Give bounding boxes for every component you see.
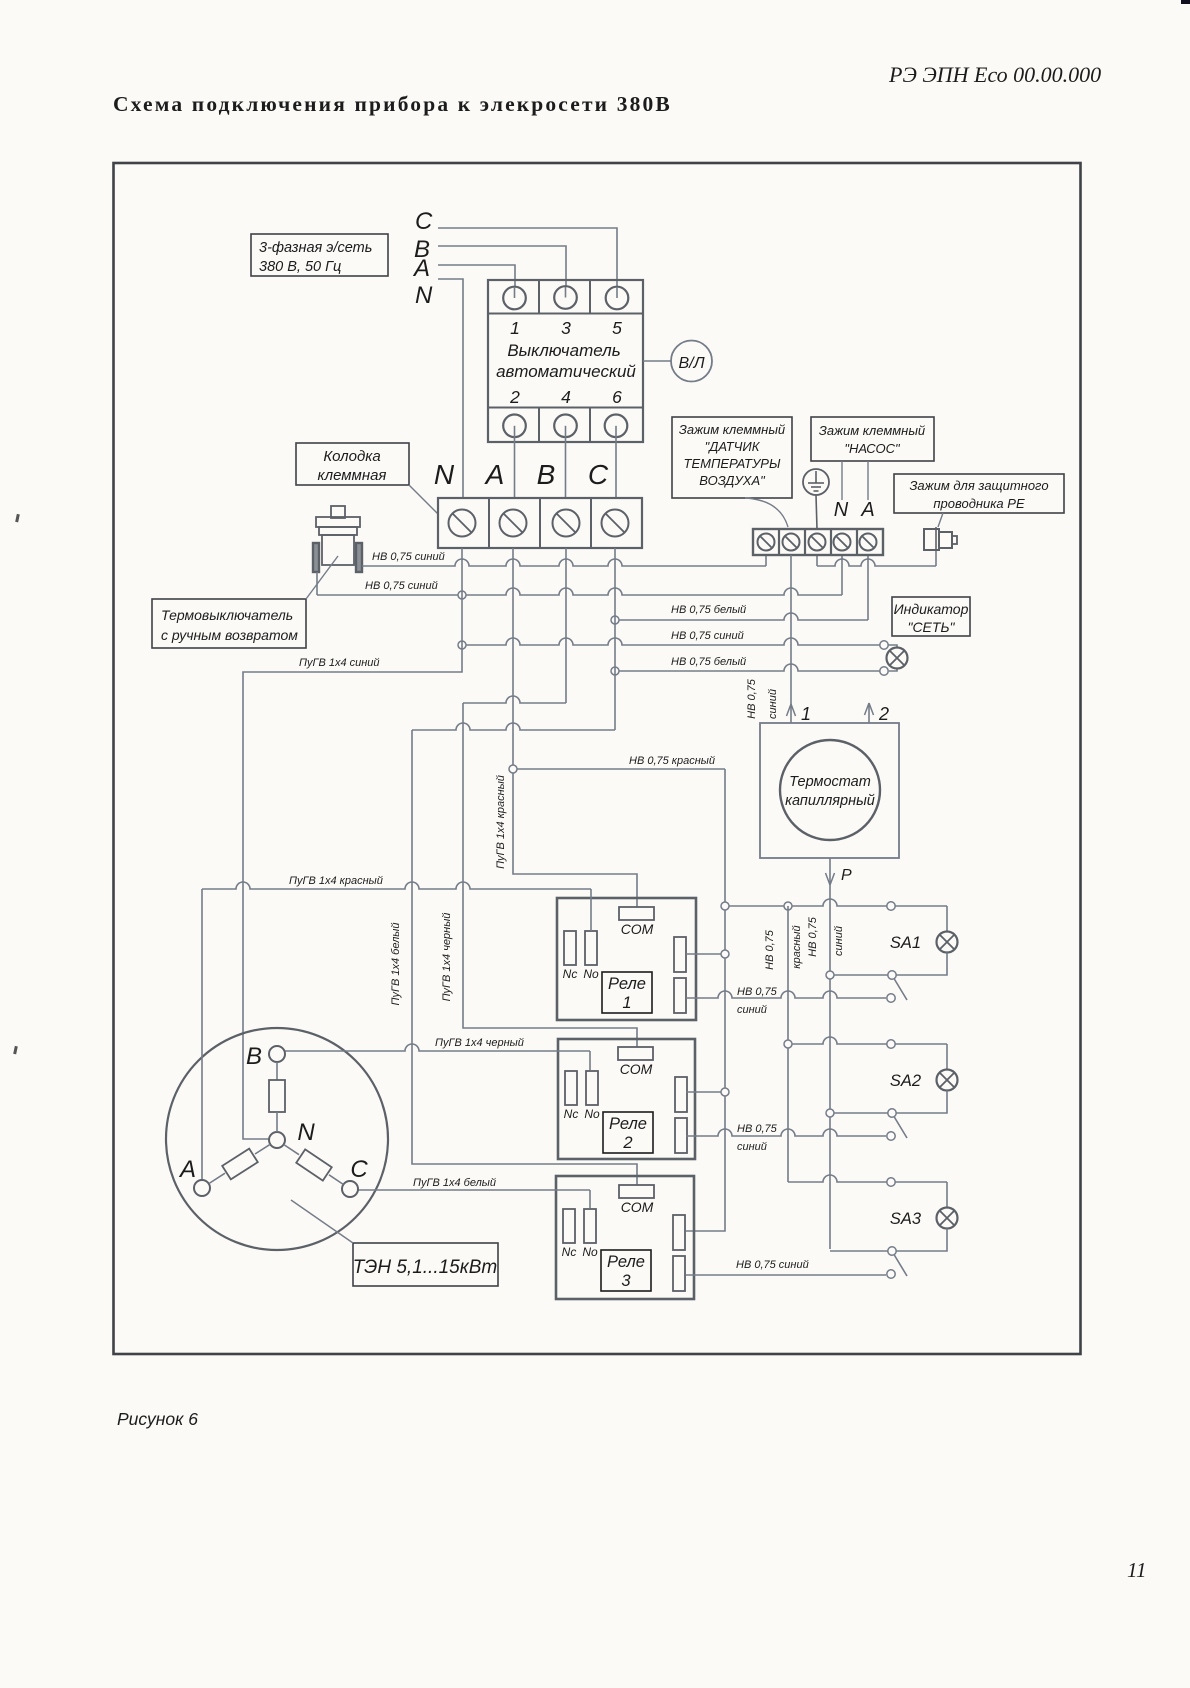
label box: 3-phase supply (251, 234, 388, 276)
svg-text:А: А (860, 499, 874, 521)
svg-text:Nc: Nc (563, 967, 578, 981)
switch SA3 bottom contact (887, 1270, 895, 1278)
switch SA2 blade (894, 1117, 907, 1139)
relay1 No terminal (585, 931, 597, 965)
wire phase B to breaker pin 3 (438, 246, 566, 287)
terminal circle feed SA1 (887, 902, 895, 910)
svg-text:синий: синий (737, 1004, 767, 1016)
switch SA2 bottom contact (887, 1132, 895, 1140)
breaker terminal circle pin3 (554, 286, 577, 309)
sensor/pump clamp terminal strip XT2 (753, 529, 883, 555)
svg-text:НВ 0,75: НВ 0,75 (764, 929, 776, 970)
relay3 No terminal (584, 1209, 596, 1243)
wire НВ 0,75 синий: thermal cutout left to N junction to НАСОС N clamp (316, 572, 318, 595)
breaker terminal circle pin6 (605, 415, 628, 438)
svg-text:Колодка: Колодка (323, 448, 380, 465)
scan speck left margin 1 (15, 514, 20, 522)
wire НВ 0,75 белый: C junction to indicator lamp (615, 664, 880, 671)
svg-text:N: N (415, 282, 433, 309)
wire breaker pin2 to terminal block A (514, 426, 516, 498)
heater element B-N (276, 1062, 278, 1080)
svg-text:380 В, 50 Гц: 380 В, 50 Гц (259, 259, 341, 275)
svg-text:5: 5 (612, 318, 622, 338)
svg-text:НВ 0,75: НВ 0,75 (737, 986, 778, 998)
svg-text:НВ 0,75: НВ 0,75 (737, 1123, 778, 1135)
svg-text:НВ 0,75 белый: НВ 0,75 белый (671, 604, 746, 616)
svg-text:N: N (434, 459, 455, 490)
wire ПуГВ 1х4 красный: heater A up to relay1 No (201, 889, 203, 1180)
leader arc to sensor clamp (745, 498, 788, 527)
svg-text:ПуГВ 1х4 черный: ПуГВ 1х4 черный (435, 1037, 524, 1049)
wire relay1 coil lower НВ 0,75 синий to SA1 switch (686, 991, 886, 998)
wire НВ 0,75 синий: N junction to indicator lamp (462, 638, 880, 645)
svg-text:"НАСОС": "НАСОС" (844, 441, 901, 456)
svg-text:НВ 0,75: НВ 0,75 (746, 678, 758, 719)
svg-text:ПуГВ 1х4 синий: ПуГВ 1х4 синий (299, 657, 380, 669)
heater star point N terminal (269, 1132, 285, 1148)
svg-text:11: 11 (1127, 1558, 1146, 1582)
svg-text:SA1: SA1 (890, 934, 921, 952)
svg-text:В/Л: В/Л (678, 355, 704, 372)
terminal screw A (500, 510, 527, 537)
svg-text:синий: синий (737, 1141, 767, 1153)
svg-text:No: No (584, 1107, 600, 1121)
breaker terminal circle pin2 (503, 415, 526, 438)
svg-text:НВ 0,75 синий: НВ 0,75 синий (671, 630, 744, 642)
svg-text:No: No (582, 1245, 598, 1259)
svg-text:СОМ: СОМ (620, 1061, 653, 1077)
wire breaker pin4 to terminal block B (565, 426, 567, 498)
wire feed to SA3 lamp (788, 1175, 947, 1182)
svg-text:Выключатель: Выключатель (507, 341, 620, 360)
wire control bus horizontal to SA1 (725, 899, 947, 906)
relay K3 (Реле 3) (556, 1176, 694, 1299)
svg-text:С: С (350, 1156, 368, 1183)
terminal circle feed SA3 (887, 1178, 895, 1186)
switch SA1 blade (894, 979, 907, 1001)
svg-text:"СЕТЬ": "СЕТЬ" (907, 619, 955, 635)
heater phase A terminal (194, 1180, 210, 1196)
svg-text:Реле: Реле (609, 1115, 647, 1133)
svg-text:3: 3 (621, 1272, 631, 1290)
switch SA3 blade (894, 1255, 907, 1277)
relay2 coil terminal upper (675, 1077, 687, 1112)
lamp terminal bottom (880, 667, 888, 675)
relay K2 (Реле 2) (558, 1039, 695, 1159)
clamp screw 5 (A) (860, 534, 877, 551)
svg-text:капиллярный: капиллярный (785, 793, 875, 809)
wire feed to SA2 lamp (788, 1037, 947, 1044)
terminal screw C (602, 510, 629, 537)
heater phase C terminal (342, 1181, 358, 1197)
svg-text:Термовыключатель: Термовыключатель (161, 607, 293, 623)
svg-text:проводника РЕ: проводника РЕ (933, 496, 1025, 511)
label box: Колодка клеммная (296, 443, 409, 485)
relay3 Nc terminal (563, 1209, 575, 1243)
clamp screw 2 (783, 534, 800, 551)
relay2 COM terminal (618, 1047, 653, 1060)
svg-text:красный: красный (791, 925, 803, 968)
wire ПуГВ 1х4 белый: heater C to relay3 No (358, 1189, 590, 1191)
svg-text:"ДАТЧИК: "ДАТЧИК (705, 439, 761, 454)
svg-text:РЭ ЭПН Есо 00.00.000: РЭ ЭПН Есо 00.00.000 (888, 62, 1101, 87)
svg-text:Nc: Nc (564, 1107, 579, 1121)
svg-text:СОМ: СОМ (621, 921, 654, 937)
svg-text:НВ 0,75: НВ 0,75 (807, 916, 819, 957)
leader line to terminal block (409, 485, 438, 514)
wire НВ 0,75 синий from clamp cell2 to thermostat pin 1 (790, 555, 792, 723)
scan corner mark (1181, 0, 1190, 4)
switch SA1 top contact (888, 971, 896, 979)
svg-text:1: 1 (801, 704, 811, 724)
svg-text:С: С (415, 208, 433, 235)
terminal screw N (449, 510, 476, 537)
wire НВ 0,75 красный: A junction to control circuit (513, 768, 725, 770)
indicator lamp HL СЕТЬ (880, 641, 908, 675)
relay1 Nc terminal (564, 931, 576, 965)
label box: Зажим клеммный НАСОС (811, 417, 934, 461)
svg-text:ПуГВ 1х4 красный: ПуГВ 1х4 красный (289, 875, 383, 887)
wire НВ 0,75 белый: C junction to НАСОС A clamp (615, 613, 868, 620)
svg-text:4: 4 (561, 387, 571, 407)
leader lines to clamp cells N and A (841, 461, 843, 500)
svg-text:N: N (834, 499, 849, 521)
PE bolt clamp (924, 513, 957, 551)
svg-text:А: А (178, 1156, 196, 1183)
svg-text:Рисунок 6: Рисунок 6 (117, 1409, 198, 1429)
svg-text:с ручным возвратом: с ручным возвратом (161, 627, 298, 643)
signal lamp SA3 (937, 1208, 958, 1229)
breaker terminal circle pin4 (554, 415, 577, 438)
leader line to thermal cutout (306, 556, 338, 599)
clamp screw 1 (758, 534, 775, 551)
label box: Зажим клеммный ДАТЧИК ТЕМПЕРАТУРЫ ВОЗДУХА (672, 417, 792, 498)
svg-text:Реле: Реле (607, 1253, 645, 1271)
relay3 coil terminal upper (673, 1215, 685, 1250)
wire feed to SA1 lamp (946, 906, 948, 932)
svg-text:СОМ: СОМ (621, 1199, 654, 1215)
svg-text:N: N (297, 1119, 315, 1146)
relay3 COM terminal (619, 1185, 654, 1198)
wire ПуГВ 1х4 черный: heater B to relay2 No (285, 1044, 590, 1051)
signal lamp SA1 (937, 932, 958, 953)
breaker designator circle В/Л (643, 360, 672, 362)
clamp screw 4 (N) (834, 534, 851, 551)
terminal block XT1 (колодка клеммная) (438, 498, 642, 548)
wire breaker pin6 to terminal block C (615, 426, 617, 498)
wire cell3 of sensor clamp to PE bolt (816, 555, 818, 566)
heater element N-C (284, 1145, 299, 1155)
thermostat output P down arrow and wire (829, 858, 831, 1249)
svg-text:синий: синий (767, 689, 779, 719)
relay1 name box (602, 972, 652, 1013)
svg-text:НВ 0,75 синий: НВ 0,75 синий (372, 551, 445, 563)
wire relay3 coil lower НВ 0,75 синий to SA3 switch (686, 1274, 886, 1276)
heater phase B terminal (269, 1046, 285, 1062)
svg-text:Схема подключения прибора к: Схема подключения прибора к элекросети 3… (113, 92, 672, 116)
label box: ТЭН 5,1...15кВт (353, 1243, 498, 1286)
wire B phase jog ПуГВ 1х4 черный to relay2 COM (463, 696, 566, 703)
breaker terminal circle pin5 (606, 287, 629, 310)
label box: Индикатор СЕТЬ (892, 597, 970, 636)
wire lamp SA3 to switch top and P line (830, 1229, 947, 1252)
svg-text:2: 2 (622, 1134, 632, 1152)
svg-text:НВ 0,75 белый: НВ 0,75 белый (671, 656, 746, 668)
wire C phase vertical ПуГВ 1х4 белый to relay3 COM (614, 548, 616, 620)
label box: Зажим для защитного проводника PE (894, 474, 1064, 513)
relay3 name box (601, 1250, 651, 1291)
wire N column vertical from terminal block (461, 548, 463, 645)
relay1 coil terminal lower (674, 978, 686, 1013)
wire lamp SA1 to switch top and P line (830, 953, 947, 976)
svg-text:автоматический: автоматический (496, 362, 636, 381)
svg-text:No: No (583, 967, 599, 981)
svg-text:НВ 0,75 синий: НВ 0,75 синий (736, 1259, 809, 1271)
svg-text:А: А (484, 459, 505, 490)
svg-text:1: 1 (622, 994, 631, 1012)
switch SA2 top contact (888, 1109, 896, 1117)
label box: Термовыключатель с ручным возвратом (152, 599, 306, 648)
svg-text:клеммная: клеммная (318, 467, 387, 484)
wire phase N down left side of breaker to terminal block N (438, 279, 463, 498)
wire relay1 coil upper to red bus junction (686, 953, 725, 955)
relay2 coil terminal lower (675, 1118, 687, 1153)
svg-text:НВ 0,75 красный: НВ 0,75 красный (629, 755, 715, 767)
svg-text:ВОЗДУХА": ВОЗДУХА" (699, 473, 766, 488)
wire lamp SA2 to switch top and P line (830, 1091, 947, 1114)
svg-text:1: 1 (510, 318, 520, 338)
wire phase A to breaker pin 1 (438, 265, 515, 287)
breaker terminal circle pin1 (503, 287, 526, 310)
leader line to heater (291, 1200, 353, 1243)
lamp terminal top (880, 641, 888, 649)
svg-text:2: 2 (509, 387, 520, 407)
clamp screw 3 (809, 534, 826, 551)
svg-text:Зажим клеммный: Зажим клеммный (819, 423, 925, 438)
relay K1 (Реле 1) (557, 898, 696, 1020)
svg-text:3: 3 (561, 318, 571, 338)
svg-text:Зажим клеммный: Зажим клеммный (679, 422, 785, 437)
wire relay2 coil lower НВ 0,75 синий to SA2 switch (686, 1129, 886, 1136)
heater TEH outline circle (166, 1028, 388, 1250)
thermal cutout SK (термовыключатель) (313, 506, 362, 572)
terminal screw B (553, 510, 580, 537)
svg-text:Термостат: Термостат (789, 774, 871, 790)
svg-text:SA3: SA3 (890, 1210, 922, 1228)
svg-text:В: В (246, 1043, 262, 1070)
signal lamp SA2 (937, 1070, 958, 1091)
relay2 name box (603, 1112, 653, 1153)
wire phase C to breaker pin 5 (438, 228, 617, 287)
svg-text:ТЭН 5,1...15кВт: ТЭН 5,1...15кВт (353, 1257, 497, 1278)
svg-text:синий: синий (833, 926, 845, 956)
relay1 coil terminal upper (674, 937, 686, 972)
svg-text:SA2: SA2 (890, 1072, 921, 1090)
svg-text:6: 6 (612, 387, 622, 407)
circuit breaker QF (Выключатель автоматический) (488, 280, 643, 442)
relay3 coil terminal lower (673, 1256, 685, 1291)
relay1 COM terminal (619, 907, 654, 920)
switch SA3 top contact (888, 1247, 896, 1255)
thermostat box (Термостат капиллярный) (760, 723, 899, 858)
switch SA1 bottom contact (887, 994, 895, 1002)
svg-text:2: 2 (878, 704, 889, 724)
thermostat pin 1 arrow (787, 704, 796, 716)
svg-text:Nc: Nc (562, 1245, 577, 1259)
svg-text:Зажим для защитного: Зажим для защитного (909, 478, 1048, 493)
svg-text:В: В (537, 459, 556, 490)
thermostat pin 2 arrow stub (868, 703, 870, 723)
svg-text:А: А (412, 255, 430, 282)
svg-text:ПуГВ 1х4 красный: ПуГВ 1х4 красный (495, 775, 507, 869)
svg-text:ТЕМПЕРАТУРЫ: ТЕМПЕРАТУРЫ (684, 456, 781, 471)
drawing frame border (114, 163, 1081, 1354)
svg-text:ПуГВ 1х4 белый: ПуГВ 1х4 белый (413, 1177, 496, 1189)
earth symbol above sensor clamp (803, 469, 829, 529)
wire НВ 0,75 красный vertical to SA2/SA3 feeds (787, 906, 789, 1182)
scan speck left margin 2 (13, 1046, 18, 1054)
svg-text:3-фазная э/сеть: 3-фазная э/сеть (259, 240, 372, 256)
relay2 Nc terminal (565, 1071, 577, 1105)
heater element N-A (255, 1144, 270, 1154)
relay2 No terminal (586, 1071, 598, 1105)
svg-text:ПуГВ 1х4 черный: ПуГВ 1х4 черный (441, 913, 453, 1002)
wire relay2 coil upper to red bus junction (686, 1091, 725, 1093)
wire ПуГВ 1х4 синий: N net down to heater star point (243, 645, 462, 1139)
svg-text:С: С (588, 459, 609, 490)
terminal circle feed SA2 (887, 1040, 895, 1048)
wire НВ 0,75 синий: thermal cutout to sensor clamp pin1 (362, 559, 766, 566)
svg-text:Реле: Реле (608, 975, 646, 993)
wire A phase vertical ПуГВ 1х4 красный to relay1 COM (513, 548, 637, 907)
svg-text:ПуГВ 1х4 белый: ПуГВ 1х4 белый (390, 923, 402, 1006)
svg-text:НВ 0,75 синий: НВ 0,75 синий (365, 580, 438, 592)
svg-text:Р: Р (841, 867, 852, 884)
svg-text:Индикатор: Индикатор (894, 601, 969, 617)
